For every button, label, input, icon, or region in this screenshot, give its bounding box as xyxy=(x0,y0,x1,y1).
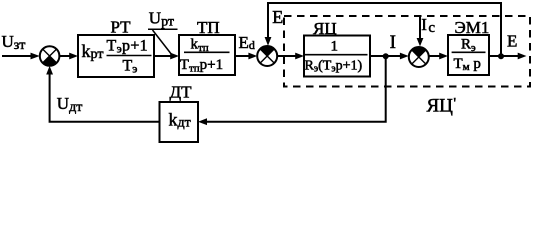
block RT (regulator) xyxy=(78,35,154,77)
wire sum2 to YaTs block xyxy=(277,55,296,57)
svg-text:ДТ: ДТ xyxy=(170,82,193,101)
dashed box YaTs' xyxy=(284,16,530,87)
node output junction dot xyxy=(498,53,504,59)
svg-text:Ттпр+1: Ттпр+1 xyxy=(180,57,223,75)
node I junction dot xyxy=(383,53,389,59)
block YaTs fraction bar xyxy=(305,54,368,56)
wire YaTs to sum3 with junction I xyxy=(370,55,400,57)
wire sum3 to EM1 xyxy=(429,55,440,57)
wire E feedback: up right corner from output junction xyxy=(268,3,501,56)
block EM1 fraction bar xyxy=(452,51,486,53)
block RT fraction bar xyxy=(107,55,152,57)
wire EM1 to output E xyxy=(489,55,518,57)
block TP (thyristor converter) xyxy=(179,35,235,75)
wire sum1 to RT xyxy=(59,55,70,57)
svg-text:I: I xyxy=(390,32,396,53)
block TP fraction bar xyxy=(184,51,230,53)
svg-text:РТ: РТ xyxy=(111,18,132,37)
wire DT to sum1 xyxy=(50,72,160,122)
wire RT to TP xyxy=(154,55,171,57)
summing junction 3 (current) xyxy=(409,47,429,67)
summing junction 2 (EMF) xyxy=(257,46,277,66)
wire I_c input xyxy=(419,16,421,41)
block EM1 (motor) xyxy=(448,35,489,75)
wire current feedback down from I junction xyxy=(206,56,386,121)
svg-text:1: 1 xyxy=(331,38,339,54)
summing junction 1 xyxy=(40,46,60,66)
svg-text:Е: Е xyxy=(272,7,283,27)
block DT (current sensor) xyxy=(160,102,199,142)
svg-text:Тэр+1: Тэр+1 xyxy=(107,37,148,55)
svg-text:Е: Е xyxy=(507,32,517,51)
svg-text:ЯЦ': ЯЦ' xyxy=(427,95,457,116)
block YaTs (armature circuit) xyxy=(304,36,370,77)
wire tap slash xyxy=(153,30,173,55)
wire U_zt input arrow xyxy=(2,55,31,57)
